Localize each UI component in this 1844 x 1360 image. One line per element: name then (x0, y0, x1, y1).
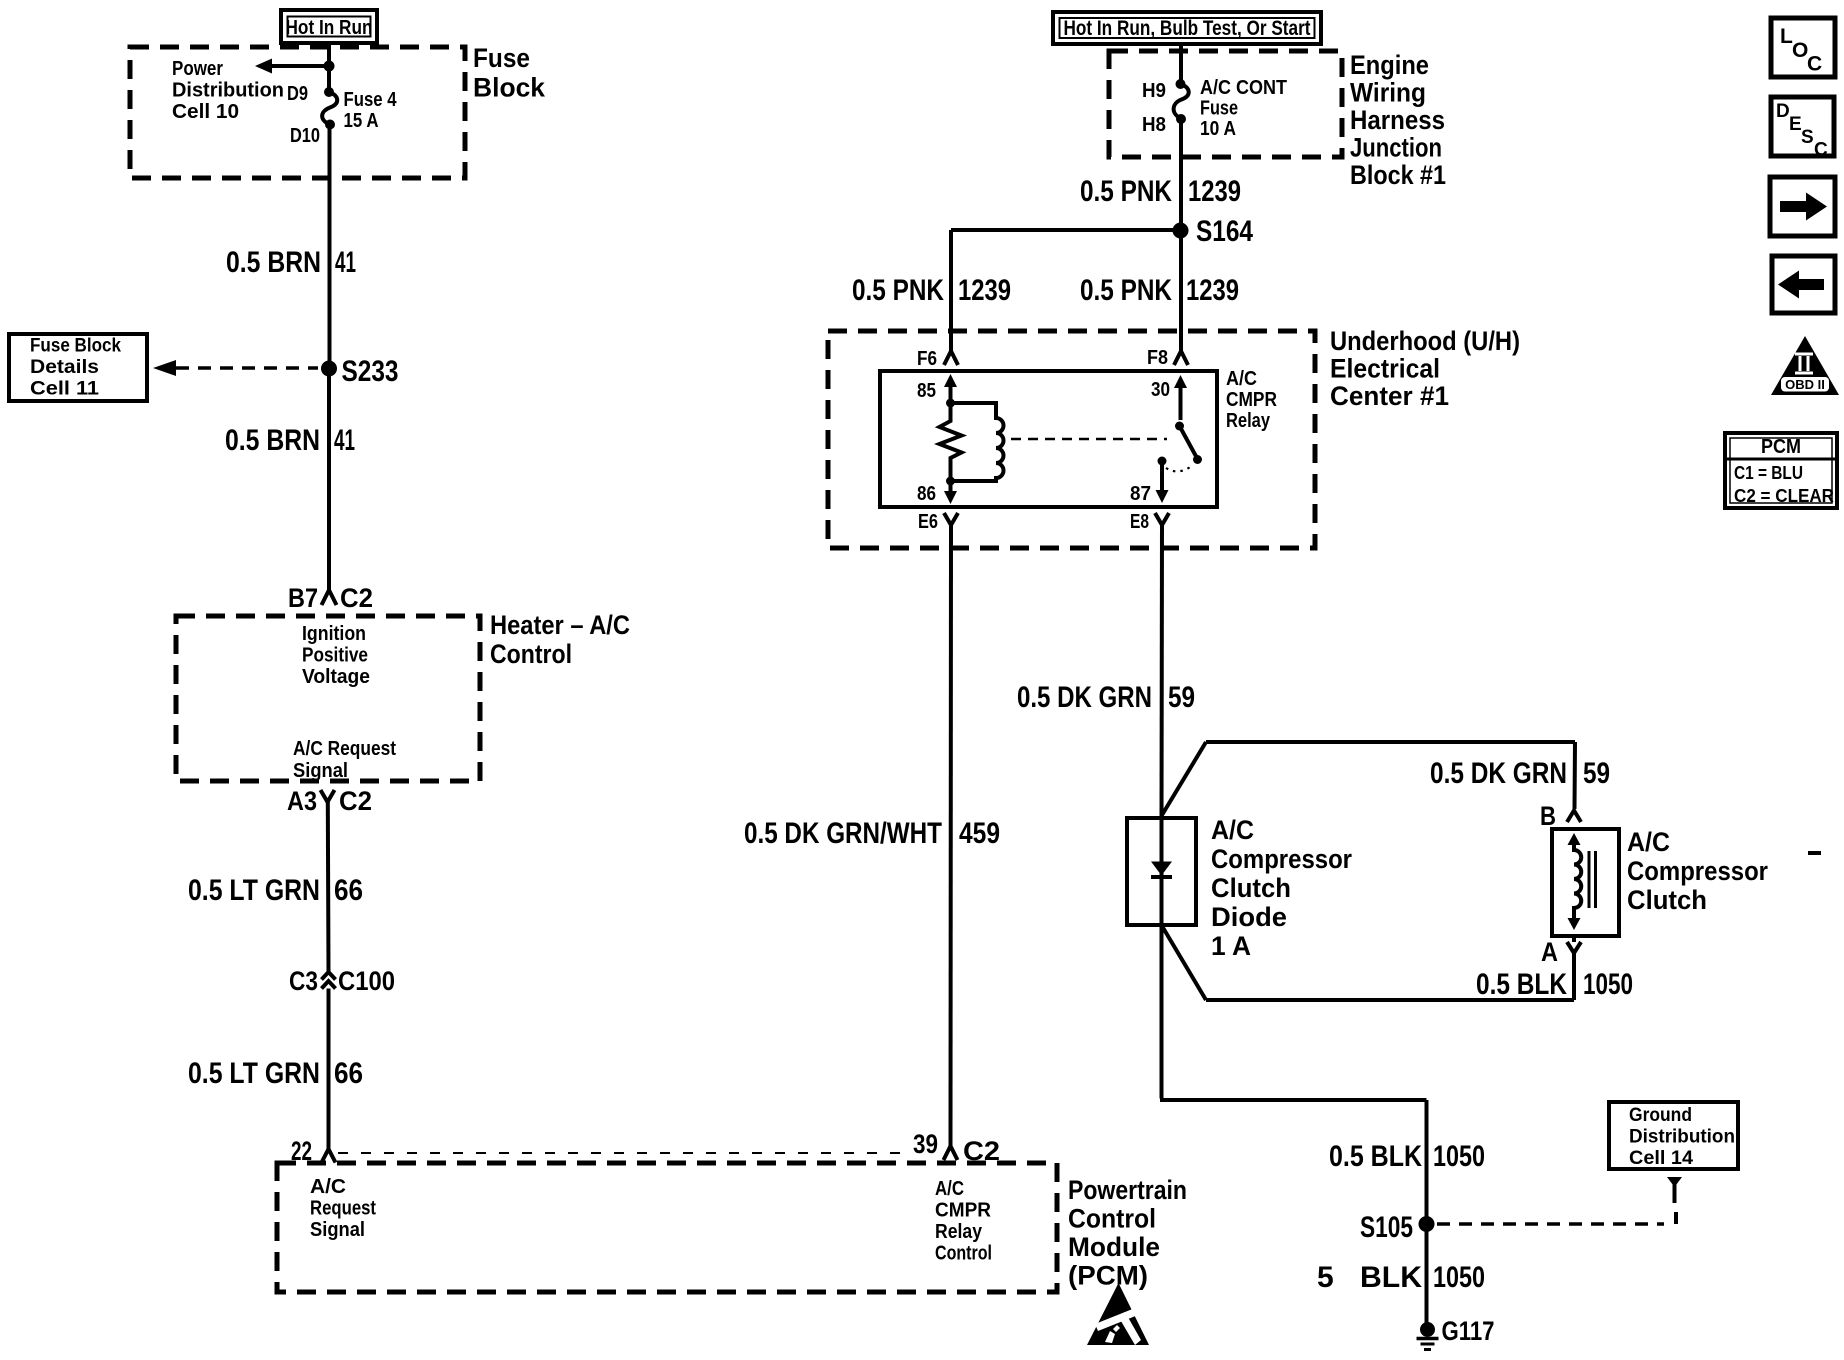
pin E6 (918, 511, 958, 533)
svg-text:0.5 BLK: 0.5 BLK (1329, 1140, 1422, 1173)
svg-text:85: 85 (917, 380, 936, 402)
wire 0.5 PNK 1239 (feed) (1179, 119, 1183, 224)
label 0.5 DK GRN 59 (1017, 681, 1195, 714)
wire to ground splice (1160, 925, 1427, 1326)
svg-text:A/C: A/C (935, 1178, 964, 1200)
svg-text:1239: 1239 (1186, 274, 1239, 307)
scan double line on PCM box top (338, 1152, 908, 1154)
heater A/C control dashed box (176, 616, 480, 781)
label 0.5 DK GRN 59 (clutch feed) (1430, 757, 1610, 790)
svg-text:Power: Power (172, 58, 223, 80)
icon OBD II triangle (1771, 336, 1839, 395)
svg-text:Compressor: Compressor (1627, 856, 1768, 886)
pin F6 (917, 348, 958, 370)
dashed reference line to ground distribution (1437, 1212, 1676, 1224)
svg-text:0.5 DK GRN/WHT: 0.5 DK GRN/WHT (744, 817, 942, 850)
svg-text:Hot In Run: Hot In Run (286, 17, 373, 39)
ESD sensitive symbol (1087, 1283, 1149, 1345)
pin 30 (1151, 375, 1187, 420)
pin 87 (1130, 457, 1169, 506)
svg-text:Fuse: Fuse (473, 43, 530, 73)
svg-text:Details: Details (30, 357, 99, 378)
pin H9 (1142, 79, 1186, 102)
svg-text:0.5 PNK: 0.5 PNK (1080, 175, 1172, 208)
connector B7 C2 (heater control) (288, 583, 373, 613)
svg-text:CMPR: CMPR (1226, 389, 1277, 411)
svg-text:Heater – A/C: Heater – A/C (490, 610, 630, 640)
label 0.5 DK GRN/WHT 459 (744, 817, 1000, 850)
relay U1 box (A/C CMPR relay) (880, 371, 1217, 507)
node coil bottom junction (946, 477, 955, 486)
svg-text:D: D (1776, 101, 1790, 122)
svg-text:Fuse: Fuse (1200, 98, 1238, 120)
title A/C Compressor Clutch (1627, 827, 1768, 915)
wire from Hot In Run into fuse block (327, 43, 331, 88)
node Hot In Run (power feed box) (281, 10, 377, 43)
svg-text:Junction: Junction (1350, 133, 1442, 163)
svg-text:E8: E8 (1130, 511, 1149, 533)
label A/C Request Signal (PCM) (310, 1176, 376, 1241)
fuse block dashed box (130, 47, 465, 178)
svg-text:O: O (1792, 39, 1808, 62)
label Power Distribution Cell 10 (172, 58, 284, 123)
svg-text:S233: S233 (342, 355, 399, 388)
svg-text:A: A (1541, 937, 1558, 967)
svg-text:F8: F8 (1147, 347, 1168, 369)
pin B (clutch) (1540, 801, 1581, 831)
fuse A/C CONT (S-curve symbol) (1174, 84, 1189, 119)
svg-text:Module: Module (1068, 1232, 1160, 1262)
svg-text:Wiring: Wiring (1350, 78, 1426, 108)
wire 0.5 LT GRN 66 (lower) (327, 989, 331, 1151)
switch blade (relay contact arm) (1175, 422, 1202, 465)
label A/C Request Signal (heater) (293, 738, 396, 782)
svg-text:Underhood (U/H): Underhood (U/H) (1330, 326, 1520, 356)
svg-text:Request: Request (310, 1198, 376, 1220)
svg-text:459: 459 (959, 817, 1000, 850)
svg-text:Cell 10: Cell 10 (172, 101, 239, 123)
svg-text:D9: D9 (287, 83, 308, 105)
svg-text:59: 59 (1168, 681, 1195, 714)
svg-text:1050: 1050 (1583, 968, 1633, 1001)
svg-text:30: 30 (1151, 379, 1170, 401)
svg-text:C2: C2 (339, 786, 372, 816)
icon LOC (1771, 18, 1835, 77)
svg-text:Diode: Diode (1211, 902, 1287, 932)
title Powertrain Control Module (PCM) (1068, 1175, 1187, 1291)
wire branch to clutch B (1162, 742, 1575, 815)
svg-text:1239: 1239 (958, 274, 1011, 307)
svg-text:Ignition: Ignition (302, 623, 366, 645)
svg-text:B: B (1540, 801, 1556, 831)
wire 0.5 DK GRN 59 (relay output) (1160, 525, 1165, 818)
svg-text:H9: H9 (1142, 80, 1166, 102)
label 0.5 BLK 1050 (clutch return) (1476, 968, 1633, 1001)
inductor coil (relay winding, parallel) (951, 403, 1004, 481)
title Heater - A/C Control (490, 610, 630, 669)
value label A/C CONT Fuse 10 A (1200, 77, 1287, 140)
node coil top junction (946, 399, 955, 408)
svg-text:Clutch: Clutch (1211, 873, 1291, 903)
title Fuse Block (473, 43, 546, 103)
pin F8 (1147, 347, 1188, 369)
svg-text:66: 66 (334, 874, 363, 907)
svg-text:Powertrain: Powertrain (1068, 1175, 1187, 1205)
svg-text:A/C CONT: A/C CONT (1200, 77, 1287, 99)
svg-text:Electrical: Electrical (1330, 354, 1440, 384)
svg-text:OBD II: OBD II (1785, 377, 1825, 392)
svg-text:10 A: 10 A (1200, 118, 1236, 140)
svg-text:A/C: A/C (1226, 368, 1257, 390)
svg-text:C: C (1814, 140, 1828, 161)
svg-text:C3: C3 (289, 966, 318, 996)
diode D1 symbol (1151, 862, 1172, 878)
svg-text:C2: C2 (963, 1136, 1000, 1166)
connector C3 C100 (inline) (289, 966, 395, 996)
value label Fuse 4 15 A (344, 89, 398, 132)
label A/C CMPR Relay Control (935, 1178, 992, 1265)
svg-text:1239: 1239 (1188, 175, 1241, 208)
label 0.5 BRN 41 (upper) (226, 246, 356, 279)
svg-text:87: 87 (1130, 483, 1151, 505)
splice S233 (321, 355, 399, 388)
label 0.5 LT GRN 66 (lower) (188, 1057, 363, 1090)
pin 22 connector into PCM (291, 1136, 336, 1166)
svg-text:Block: Block (473, 73, 546, 103)
pin H8 (1142, 114, 1186, 136)
svg-text:0.5 PNK: 0.5 PNK (852, 274, 944, 307)
engine wiring harness junction block dashed box (1109, 51, 1342, 157)
svg-text:PCM: PCM (1761, 436, 1801, 458)
underhood electrical center dashed box (828, 331, 1315, 548)
reference box Fuse Block Details Cell 11 (9, 334, 147, 401)
splice S164 (1173, 215, 1254, 248)
svg-text:Distribution: Distribution (172, 80, 284, 102)
svg-text:86: 86 (917, 483, 936, 505)
label 0.5 PNK 1239 (feed) (1080, 175, 1241, 208)
svg-text:15 A: 15 A (344, 110, 379, 132)
svg-text:E: E (1789, 114, 1802, 135)
svg-text:0.5 BRN: 0.5 BRN (226, 246, 321, 279)
svg-text:Signal: Signal (310, 1219, 365, 1241)
svg-text:Fuse 4: Fuse 4 (344, 89, 398, 111)
svg-text:A/C: A/C (1627, 827, 1670, 857)
fuse F4 (S-curve symbol) (322, 92, 337, 125)
wire S164 branch to relay coil (951, 230, 1181, 351)
title A/C Compressor Clutch Diode 1 A (1211, 815, 1352, 961)
svg-text:Harness: Harness (1350, 105, 1445, 135)
title Underhood (U/H) Electrical Center #1 (1330, 326, 1520, 411)
svg-text:Distribution: Distribution (1629, 1127, 1735, 1148)
svg-text:Ground: Ground (1629, 1105, 1692, 1126)
wire 0.5 DK GRN/WHT 459 (relay control to PCM) (949, 525, 954, 1146)
wire 0.5 BLK 1050 (clutch return) (1162, 926, 1574, 1000)
dotted contact travel arc (1166, 465, 1193, 471)
svg-text:A/C: A/C (310, 1176, 346, 1198)
pin 86 (917, 481, 957, 505)
A/C compressor clutch box (1552, 829, 1619, 936)
pin 85 (917, 374, 957, 402)
svg-text:C1 = BLU: C1 = BLU (1734, 462, 1803, 483)
title Engine Wiring Harness Junction Block #1 (1350, 50, 1446, 190)
svg-text:Fuse Block: Fuse Block (30, 336, 121, 357)
svg-text:E6: E6 (918, 511, 938, 533)
svg-text:BLK: BLK (1360, 1261, 1422, 1294)
svg-text:F6: F6 (917, 348, 937, 370)
junction dot on feed wire (324, 61, 335, 72)
svg-text:Control: Control (935, 1243, 992, 1265)
svg-text:Signal: Signal (293, 760, 348, 782)
svg-text:39: 39 (913, 1129, 938, 1159)
svg-text:C2 = CLEAR: C2 = CLEAR (1734, 485, 1834, 506)
node Hot In Run, Bulb Test, Or Start (power feed box) (1053, 12, 1321, 44)
svg-text:Relay: Relay (1226, 410, 1271, 432)
svg-text:66: 66 (334, 1057, 363, 1090)
label 0.5 LT GRN 66 (upper) (188, 874, 363, 907)
svg-text:D10: D10 (290, 125, 320, 147)
stray mark (1808, 851, 1821, 855)
PCM dashed box (277, 1163, 1057, 1292)
svg-text:0.5 BLK: 0.5 BLK (1476, 968, 1567, 1001)
svg-text:Engine: Engine (1350, 50, 1429, 80)
pin 39 connector into PCM (913, 1129, 1000, 1166)
label 0.5 BRN 41 (lower) (225, 424, 355, 457)
connector A3 C2 (287, 786, 372, 816)
svg-text:Voltage: Voltage (302, 666, 370, 688)
svg-text:S105: S105 (1360, 1211, 1413, 1244)
svg-text:G117: G117 (1442, 1316, 1495, 1346)
svg-text:A3: A3 (287, 786, 317, 816)
wire 0.5 BRN 41 (lower) (327, 376, 331, 591)
svg-text:S164: S164 (1196, 215, 1253, 248)
svg-text:0.5 BRN: 0.5 BRN (225, 424, 320, 457)
svg-text:0.5 DK GRN: 0.5 DK GRN (1017, 681, 1152, 714)
pin D10 (290, 120, 335, 148)
pin A (clutch) (1541, 936, 1581, 967)
svg-text:H8: H8 (1142, 114, 1166, 136)
pin D9 (287, 83, 334, 105)
svg-text:A/C: A/C (1211, 815, 1254, 845)
reference arrow from ground distribution box (1667, 1177, 1682, 1203)
wire through diode (1160, 818, 1164, 925)
svg-text:59: 59 (1583, 757, 1610, 790)
svg-text:CMPR: CMPR (935, 1200, 992, 1222)
arrow to power distribution (255, 59, 329, 74)
label 0.5 PNK 1239 (left branch) (852, 274, 1011, 307)
svg-text:Clutch: Clutch (1627, 885, 1707, 915)
svg-text:0.5 DK GRN: 0.5 DK GRN (1430, 757, 1567, 790)
pin E8 (1130, 511, 1169, 533)
svg-text:S: S (1801, 127, 1814, 148)
label 5 BLK 1050 (1317, 1261, 1485, 1294)
svg-text:0.5 PNK: 0.5 PNK (1080, 274, 1172, 307)
splice S105 (1360, 1211, 1435, 1244)
svg-text:A/C Request: A/C Request (293, 738, 396, 760)
svg-text:B7: B7 (288, 583, 318, 613)
svg-text:Relay: Relay (935, 1221, 983, 1243)
wire from feed into junction block (1179, 44, 1183, 84)
svg-text:41: 41 (335, 246, 356, 279)
svg-text:1050: 1050 (1433, 1140, 1485, 1173)
svg-text:Positive: Positive (302, 645, 368, 667)
svg-text:1050: 1050 (1433, 1261, 1485, 1294)
dashed reference arrow to S233 (153, 360, 318, 376)
clutch solenoid coil (1568, 833, 1582, 930)
svg-text:Cell 11: Cell 11 (30, 379, 99, 400)
wire S164 down to relay contact (1179, 230, 1183, 351)
label 0.5 PNK 1239 (right branch) (1080, 274, 1239, 307)
label Ignition Positive Voltage (302, 623, 370, 688)
svg-text:Control: Control (1068, 1204, 1156, 1234)
svg-text:Center #1: Center #1 (1330, 381, 1449, 411)
svg-text:Control: Control (490, 639, 572, 669)
svg-text:Compressor: Compressor (1211, 844, 1352, 874)
icon arrow right (1770, 177, 1835, 236)
wire 0.5 BRN 41 (upper) (328, 125, 332, 362)
label A/C CMPR Relay (1226, 368, 1277, 432)
svg-text:Cell 14: Cell 14 (1629, 1148, 1693, 1169)
ground G117 (1417, 1316, 1495, 1350)
svg-text:1 A: 1 A (1211, 931, 1251, 961)
svg-text:Block #1: Block #1 (1350, 160, 1446, 190)
legend PCM connector colors (1725, 433, 1837, 508)
icon DESC (1771, 97, 1834, 161)
diode box (A/C compressor clutch diode) (1127, 818, 1196, 925)
svg-text:0.5 LT GRN: 0.5 LT GRN (188, 1057, 320, 1090)
wire 0.5 LT GRN 66 (upper) (326, 802, 331, 971)
svg-text:C100: C100 (338, 966, 395, 996)
reference box Ground Distribution Cell 14 (1609, 1102, 1738, 1169)
svg-text:41: 41 (334, 424, 355, 457)
dashed actuation linkage (1011, 438, 1167, 441)
svg-text:5: 5 (1317, 1261, 1334, 1294)
clutch plates (double bar) (1589, 851, 1596, 908)
svg-text:Hot In Run, Bulb Test, Or Star: Hot In Run, Bulb Test, Or Start (1064, 17, 1311, 40)
label 0.5 BLK 1050 (to splice) (1329, 1140, 1485, 1173)
svg-text:0.5 LT GRN: 0.5 LT GRN (188, 874, 320, 907)
resistor (relay coil suppression) (940, 403, 962, 480)
svg-text:C2: C2 (340, 583, 373, 613)
svg-text:C: C (1807, 53, 1822, 76)
icon arrow left (1772, 256, 1835, 313)
svg-text:(PCM): (PCM) (1068, 1261, 1148, 1291)
